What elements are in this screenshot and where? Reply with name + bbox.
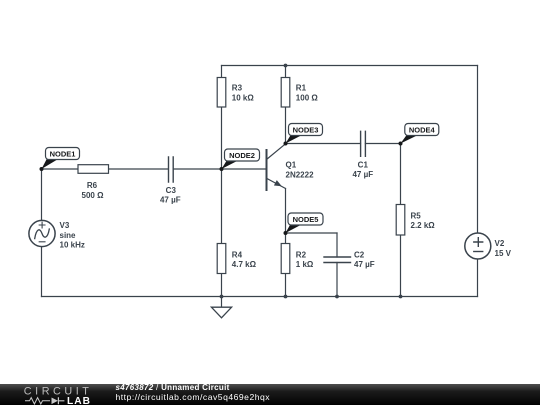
- wire NODE1 to R6: [42, 168, 79, 170]
- wire NODE1 to V3 top: [41, 169, 43, 221]
- svg-text:V3: V3: [60, 221, 70, 230]
- wire NODE3 to C1: [286, 143, 361, 145]
- node NODE3: [284, 124, 323, 146]
- junction R2 bottom: [284, 295, 288, 299]
- svg-text:V2: V2: [495, 239, 505, 248]
- svg-text:NODE2: NODE2: [229, 151, 255, 160]
- wire right rail upper (top rail to V2 top): [477, 66, 479, 234]
- svg-text:R5: R5: [411, 211, 422, 220]
- junction R1 top: [284, 64, 288, 68]
- svg-text:sine: sine: [60, 231, 77, 240]
- wire top rail: [222, 65, 478, 67]
- footer text: [116, 384, 271, 402]
- resistor R4: [217, 244, 256, 274]
- svg-text:NODE3: NODE3: [293, 126, 319, 135]
- CircuitLab logo: [0, 384, 110, 405]
- svg-text:C1: C1: [358, 160, 369, 169]
- svg-text:10 kHz: 10 kHz: [60, 241, 85, 250]
- resistor R1: [281, 78, 318, 108]
- svg-text:R1: R1: [296, 83, 307, 92]
- wire R4 to bottom rail: [221, 274, 223, 297]
- svg-text:NODE1: NODE1: [50, 150, 76, 159]
- svg-text:NODE5: NODE5: [293, 215, 319, 224]
- wire V3 bottom to bottom rail: [41, 246, 43, 296]
- svg-text:R3: R3: [232, 83, 243, 92]
- node NODE1: [40, 148, 80, 172]
- wire Q1 emitter to NODE5: [285, 189, 287, 234]
- svg-text:47 µF: 47 µF: [352, 170, 373, 179]
- svg-text:R6: R6: [87, 181, 98, 190]
- svg-text:C3: C3: [166, 186, 177, 195]
- svg-text:NODE4: NODE4: [409, 126, 436, 135]
- wire top rail to R1: [285, 66, 287, 78]
- wire R2 to bottom rail: [285, 274, 287, 297]
- wire C2 to bottom rail: [336, 263, 338, 297]
- resistor R2: [281, 244, 314, 274]
- wire C3 to NODE2: [173, 168, 221, 170]
- capacitor C1: [352, 131, 373, 179]
- svg-text:2N2222: 2N2222: [286, 170, 315, 179]
- svg-text:500 Ω: 500 Ω: [82, 191, 105, 200]
- node NODE4: [399, 124, 439, 146]
- wire NODE4 to R5: [400, 144, 402, 205]
- junction R5 bottom: [399, 295, 403, 299]
- wire R5 to bottom rail: [400, 235, 402, 297]
- svg-text:15 V: 15 V: [495, 249, 512, 258]
- svg-text:R4: R4: [232, 250, 243, 259]
- svg-text:47 µF: 47 µF: [354, 260, 375, 269]
- wire R1 to NODE3: [285, 107, 287, 144]
- capacitor C3: [160, 157, 181, 205]
- footer bar: [0, 384, 540, 405]
- svg-text:47 µF: 47 µF: [160, 196, 181, 205]
- svg-text:2.2 kΩ: 2.2 kΩ: [411, 221, 436, 230]
- wire R6 to C3: [109, 168, 169, 170]
- transistor Q1: [267, 144, 315, 190]
- resistor R5: [396, 205, 435, 236]
- svg-text:C2: C2: [354, 250, 365, 259]
- junction C2 bottom: [335, 295, 339, 299]
- wire C2 branch down to C2: [336, 233, 338, 257]
- svg-text:Q1: Q1: [286, 161, 297, 170]
- wire NODE5 to R2: [285, 233, 287, 244]
- svg-text:100 Ω: 100 Ω: [296, 93, 319, 102]
- voltage source V2 (DC 15V): [465, 233, 512, 259]
- wire NODE5 to C2 branch: [286, 232, 338, 234]
- capacitor C2: [324, 250, 375, 269]
- node NODE5: [284, 213, 324, 235]
- svg-text:R2: R2: [296, 250, 307, 259]
- svg-text:4.7 kΩ: 4.7 kΩ: [232, 260, 257, 269]
- ground: [211, 297, 231, 318]
- resistor R3: [217, 78, 254, 108]
- wire top rail to R3: [221, 66, 223, 78]
- junction ground / bottom rail: [220, 295, 224, 299]
- resistor R6: [78, 165, 109, 200]
- wire C1 to NODE4: [365, 143, 400, 145]
- svg-text:1 kΩ: 1 kΩ: [296, 260, 314, 269]
- node NODE2: [220, 149, 260, 171]
- svg-text:LAB: LAB: [67, 396, 91, 405]
- wire R3 to NODE2: [221, 107, 223, 169]
- wire bottom rail: [42, 296, 478, 298]
- wire right rail lower (V2 bottom to bottom rail): [477, 259, 479, 297]
- wire NODE2 to R4: [221, 169, 223, 244]
- voltage source V3 (sine): [29, 220, 85, 249]
- wire NODE2 to Q1 base: [222, 168, 267, 170]
- svg-text:10 kΩ: 10 kΩ: [232, 93, 255, 102]
